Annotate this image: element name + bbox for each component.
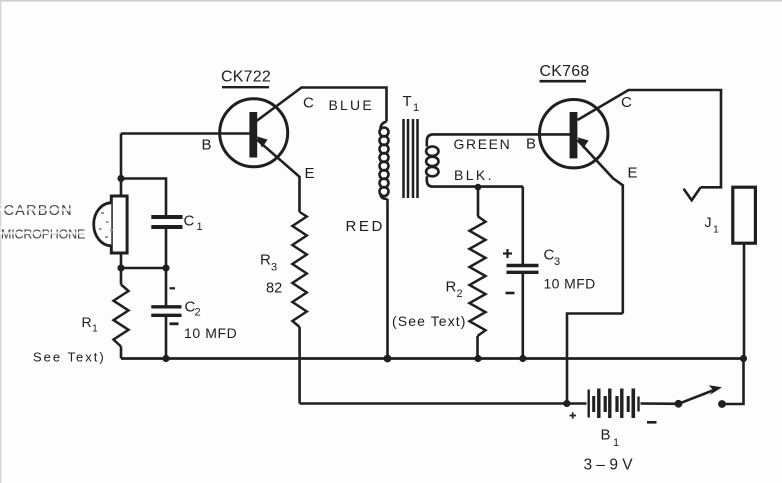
wire base Q1 vertical (120, 134, 123, 179)
svg-text:10 MFD: 10 MFD (544, 275, 596, 291)
junction node C1/C2 (162, 264, 169, 271)
capacitor C3 plates (507, 266, 539, 273)
svg-text:1: 1 (713, 224, 719, 236)
transformer T1 core (404, 119, 418, 198)
svg-text:E: E (628, 165, 638, 182)
svg-text:J: J (705, 214, 712, 230)
junction node base/mic/C1 (117, 175, 124, 182)
switch S1 lever (679, 390, 715, 404)
transistor Q2 emitter arrowhead (578, 137, 589, 148)
svg-text:BLUE: BLUE (329, 97, 374, 113)
switch right contact (718, 400, 726, 408)
wire base Q1 horizontal (121, 132, 250, 135)
junction node C3 on rail (519, 355, 526, 362)
wire Q2 base lead (540, 133, 570, 136)
wire R3 bottom to battery line (298, 327, 301, 404)
transistor Q1 emitter arrowhead (257, 136, 268, 147)
svg-text:(See Text): (See Text) (392, 313, 467, 329)
scan edge top (0, 0, 782, 2)
transistor Q1 base bar (249, 112, 257, 158)
svg-text:1: 1 (613, 437, 619, 449)
svg-text:E: E (305, 165, 315, 182)
svg-text:RED: RED (346, 218, 385, 235)
degradation stripes over mic label (0, 204, 92, 234)
svg-text:1: 1 (413, 102, 419, 114)
label J1 (705, 214, 720, 236)
label C1 (184, 212, 203, 233)
wire main ground rail (121, 357, 744, 360)
svg-text:C: C (303, 95, 314, 112)
transistor Q2 base bar (570, 112, 578, 158)
capacitor C2 polarity marks (170, 287, 176, 289)
label C3 (544, 246, 561, 268)
microphone MIC dome (94, 203, 112, 246)
svg-text:1: 1 (92, 323, 98, 335)
svg-text:B: B (526, 136, 536, 153)
wire battery minus to switch (641, 402, 679, 405)
svg-text:R: R (82, 314, 92, 330)
label CK722 (221, 69, 271, 88)
svg-text:See Text): See Text) (33, 350, 106, 365)
svg-text:1: 1 (197, 221, 203, 233)
label R2 (446, 278, 463, 300)
label B1 (601, 427, 620, 450)
svg-text:82: 82 (266, 280, 282, 296)
microphone dome speckles (99, 212, 112, 238)
junction node mic bottom (117, 264, 124, 271)
junction node jack on rail (740, 355, 747, 362)
battery plus sign (570, 412, 577, 418)
svg-text:CK722: CK722 (221, 69, 271, 86)
capacitor C3 plus sign (503, 249, 512, 258)
svg-text:R: R (446, 278, 457, 295)
svg-text:10 MFD: 10 MFD (184, 325, 237, 341)
capacitor C2 plates (151, 307, 181, 316)
svg-text:3: 3 (271, 261, 277, 273)
svg-text:C: C (544, 246, 555, 263)
svg-text:C: C (621, 94, 632, 111)
junction node emitter on battery line (563, 400, 570, 407)
wire emitter step to battery line (567, 314, 623, 404)
switch arrowhead (709, 385, 722, 395)
transformer T1 secondary loops (426, 147, 438, 156)
resistor R3 (292, 212, 306, 327)
svg-text:C: C (184, 212, 195, 229)
junction node R2 top (475, 184, 482, 191)
microphone MIC body (111, 196, 127, 253)
transformer T1 secondary top lead (GREEN) (427, 134, 540, 146)
svg-text:2: 2 (195, 307, 201, 319)
label CK768 (540, 63, 590, 81)
capacitor C3 minus sign (506, 292, 515, 295)
svg-text:3: 3 (554, 256, 560, 268)
wire Q2 collector to jack (578, 90, 722, 187)
battery B1 cells (589, 389, 639, 419)
transformer T1 primary coil exit (381, 194, 388, 200)
jack J1 open plug V (684, 188, 701, 201)
switch left contact (675, 400, 683, 408)
battery minus sign (647, 421, 657, 424)
svg-text:3 – 9 V: 3 – 9 V (584, 457, 634, 474)
wire jack to rail (743, 244, 746, 359)
scan edge left (0, 0, 1, 483)
wire microphone bottom (120, 254, 123, 269)
transformer T1 secondary bottom lead (BLK) (427, 176, 523, 186)
capacitor C1 plates (151, 217, 182, 227)
svg-text:R: R (260, 252, 271, 269)
wire Q1 emitter diagonal (257, 140, 300, 212)
svg-text:B: B (202, 137, 212, 154)
label R1 (82, 314, 99, 335)
transformer T1 primary coil entry (381, 122, 387, 130)
transistor Q1 CK722 circle (220, 99, 288, 167)
svg-text:BLK.: BLK. (454, 167, 494, 183)
junction node C2 on rail (162, 355, 169, 362)
wire mic-C2 horizontal (121, 267, 166, 270)
wire C2 top lead (165, 268, 168, 306)
wire C3 branch (521, 187, 524, 264)
svg-text:T: T (403, 93, 412, 110)
svg-text:GREEN: GREEN (454, 136, 512, 152)
wire Q2 emitter (578, 140, 623, 314)
junction node T1 primary on rail (384, 355, 392, 363)
wire node to microphone top (120, 179, 123, 196)
transformer T1 primary coil loops (380, 128, 389, 137)
wire C2 bottom lead (165, 317, 168, 359)
wire rail down to switch (722, 359, 744, 405)
junction node R2 on rail (474, 355, 481, 362)
label R3 (260, 252, 277, 274)
wire Q1 collector to T1 (257, 88, 387, 122)
transistor Q2 CK768 circle (540, 100, 608, 168)
label C2 (185, 299, 201, 319)
svg-text:2: 2 (457, 288, 463, 300)
svg-text:CK768: CK768 (540, 63, 590, 80)
wire T1 primary bottom to rail (386, 199, 389, 359)
wire node to C1 (121, 179, 166, 216)
label T1 (403, 93, 420, 114)
resistor R2 (477, 187, 480, 216)
wire battery positive line (300, 402, 587, 405)
svg-text:B: B (601, 427, 611, 444)
resistor R1 (120, 268, 123, 285)
svg-text:CARBON: CARBON (4, 203, 73, 219)
svg-text:MICROPHONE: MICROPHONE (1, 228, 85, 242)
jack J1 body (733, 187, 756, 243)
wire C1 bottom (165, 229, 168, 268)
